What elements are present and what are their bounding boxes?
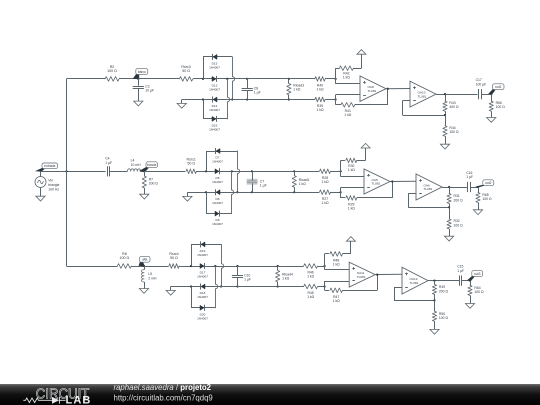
wire (gnd to C8 bottom) (182, 98, 249, 103)
svg-text:1 kΩ: 1 kΩ (307, 295, 315, 299)
wire (vertical bus) (66, 79, 68, 266)
svg-text:100 Ω: 100 Ω (449, 130, 459, 134)
wire (C7 to Rload1 top) (252, 170, 295, 172)
ground (middle bottom-rail) (183, 196, 192, 201)
svg-text:1 µF: 1 µF (466, 175, 473, 179)
wire (OA11 out to OA12) (375, 274, 402, 276)
ground (L5) (139, 289, 148, 294)
op-amp OA5 (middle first) (364, 169, 390, 194)
wire (bot - jog) (325, 281, 350, 290)
wire (alta to Rsrc4) (144, 266, 169, 268)
wire (C8 to Rload3 top) (247, 78, 290, 80)
svg-text:1N4007: 1N4007 (197, 253, 208, 257)
svg-text:100 Ω: 100 Ω (496, 105, 506, 109)
op-amp OA12 (bottom buffer) (402, 267, 428, 294)
wire (R30 to VCC) (357, 148, 366, 161)
svg-text:out2: out2 (485, 181, 492, 185)
wire (bot + jog) (325, 254, 350, 270)
node junction at bus/input (65, 170, 67, 172)
svg-text:alta: alta (142, 258, 147, 262)
svg-text:1 kΩ: 1 kΩ (348, 206, 356, 210)
svg-text:50 Ω: 50 Ω (187, 162, 195, 166)
svg-text:TL081: TL081 (424, 187, 433, 191)
wire (OA12 out to C15) (428, 280, 459, 282)
svg-text:banda: banda (147, 163, 156, 167)
capacitor C2 (133, 79, 154, 101)
svg-text:1 kΩ: 1 kΩ (343, 76, 351, 80)
flag out1 (488, 84, 504, 95)
resistor R29 (341, 196, 357, 211)
wire (D8 branch right, hops bottom rail) (232, 171, 234, 213)
svg-text:TL081: TL081 (410, 281, 419, 285)
svg-text:100 Ω: 100 Ω (120, 256, 130, 260)
inductor L4 (127, 159, 141, 172)
svg-text:100 µF: 100 µF (476, 82, 487, 86)
resistor R30 (341, 158, 357, 172)
diode D6 (212, 189, 223, 205)
resistor R49 (432, 281, 448, 302)
resistor Rload3 (287, 79, 304, 100)
svg-text:100 Ω: 100 Ω (439, 316, 449, 320)
svg-text:1 µF: 1 µF (457, 269, 464, 273)
svg-text:1 kΩ: 1 kΩ (307, 275, 315, 279)
wire (OA10 - feedback loop) (403, 101, 446, 116)
wire (R27 to - node) (331, 191, 342, 193)
wire (C7 to Rload1 bottom) (252, 191, 295, 193)
resistor R41 (336, 103, 355, 117)
svg-text:1 kΩ: 1 kΩ (348, 168, 356, 172)
ground (top bottom-rail) (177, 103, 186, 108)
svg-text:1N4007: 1N4007 (209, 88, 220, 92)
wire (D15 branch right, hops main rail) (231, 57, 235, 101)
resistor Rsrc3 (179, 65, 192, 81)
wire (C4 to L4) (110, 171, 128, 173)
svg-text:TL081: TL081 (418, 94, 427, 98)
ground (R44) (440, 144, 449, 149)
svg-text:1 kΩ: 1 kΩ (321, 180, 329, 184)
power VCC arrow (middle channel) (361, 143, 370, 148)
resistor R48 (325, 252, 343, 267)
svg-text:1 kΩ: 1 kΩ (293, 88, 301, 92)
wire (C16 to out2 node) (470, 186, 479, 188)
resistor R64 (468, 281, 484, 304)
wire (gnd to C7 bottom) (187, 191, 253, 196)
svg-text:1N4007: 1N4007 (212, 160, 223, 164)
wire (R48 to VCC) (343, 241, 351, 254)
wire (OA6 - feedback loop) (408, 194, 449, 208)
resistor R31 (447, 187, 463, 208)
voltage source Vin (35, 171, 60, 196)
wire (baixo to Rsrc3) (138, 78, 179, 80)
wire (OA5 out to OA6) (390, 180, 416, 182)
svg-text:raphael.saavedra / projeto2: raphael.saavedra / projeto2 (114, 383, 212, 392)
svg-text:1 kΩ: 1 kΩ (282, 277, 290, 281)
wire (R40 to + node) (325, 78, 337, 80)
ground (R66) (487, 118, 496, 123)
resistor R46 (304, 264, 318, 279)
wire (rail to R27) (294, 192, 319, 194)
capacitor C7 highlight (247, 179, 258, 185)
svg-text:1N4007: 1N4007 (209, 128, 220, 132)
svg-text:400 Ω: 400 Ω (449, 105, 459, 109)
svg-text:100 Ω: 100 Ω (482, 197, 492, 201)
wire (R29 to feedback) (357, 182, 393, 198)
diode D14 (209, 97, 220, 113)
capacitor C17 (476, 78, 487, 99)
capacitor C16 (466, 171, 473, 192)
resistor Rsrc1 (186, 157, 196, 173)
wire (rail to R39) (289, 99, 315, 101)
wire (R46 to + node) (318, 265, 326, 267)
svg-text:10 µF: 10 µF (145, 89, 154, 93)
svg-text:TL081: TL081 (368, 89, 377, 93)
diode D13 (209, 76, 220, 92)
wire (C10 to Rload4 top) (238, 265, 279, 267)
capacitor C10 (232, 266, 251, 287)
resistor R2 (105, 65, 119, 81)
ground (bottom bottom-rail) (166, 290, 175, 295)
svg-text:baixo: baixo (138, 70, 146, 74)
resistor R47 (325, 288, 343, 303)
svg-text:100 Ω: 100 Ω (107, 69, 117, 73)
svg-text:1N4007: 1N4007 (197, 295, 208, 299)
wire (Rload3 to R40) (289, 78, 315, 80)
resistor Rsrc4 (169, 252, 179, 268)
svg-text:entrada: entrada (44, 164, 55, 168)
wire (bus to R8) (67, 266, 118, 268)
wire (OA10 out to C17) (436, 93, 477, 95)
wire (R47 to feedback) (343, 275, 378, 291)
svg-text:100 Hz: 100 Hz (48, 187, 59, 191)
capacitor C15 (457, 265, 464, 286)
wire (C10 to Rload4 bottom) (238, 285, 279, 287)
diode D8 (212, 211, 223, 227)
diode D17 (197, 263, 208, 279)
resistor R66 (489, 94, 505, 117)
svg-text:1N4007: 1N4007 (212, 180, 223, 184)
wire (C15 to out3 node) (462, 280, 471, 282)
svg-text:50 Ω: 50 Ω (182, 69, 190, 73)
svg-text:1N4007: 1N4007 (197, 275, 208, 279)
wire (D20 branch left) (191, 287, 215, 308)
footer text (114, 383, 213, 403)
svg-text:100 Ω: 100 Ω (454, 223, 464, 227)
wire (D7 branch left) (206, 151, 237, 171)
wire (D20 branch right, hops bottom rail) (216, 266, 218, 308)
wire (R28 to + node) (331, 170, 342, 172)
flag banda (139, 162, 158, 172)
wire (D19 branch left) (191, 244, 221, 266)
op-amp OA11 (bottom first) (349, 262, 375, 287)
ground (R32) (445, 236, 454, 241)
svg-text:1 µF: 1 µF (244, 278, 251, 282)
ground (R65) (473, 210, 482, 215)
wire (gnd to C10 bottom) (171, 285, 239, 290)
svg-text:1N4007: 1N4007 (209, 66, 220, 70)
resistor R50 (432, 300, 448, 329)
svg-text:2 mH: 2 mH (148, 276, 157, 280)
resistor R65 (476, 187, 492, 210)
wire (Rload4 to R46) (278, 266, 304, 268)
diode D18 (197, 284, 208, 300)
wire (R42 left) (336, 68, 340, 70)
svg-text:1 kΩ: 1 kΩ (316, 108, 324, 112)
ground (R7) (140, 194, 149, 199)
wire (D16 branch left) (203, 100, 227, 119)
wire (Rsrc4 to C10) (179, 265, 238, 267)
svg-text:1 kΩ: 1 kΩ (333, 262, 341, 266)
resistor R44 (443, 115, 459, 144)
power VCC arrow (bottom channel) (346, 237, 355, 242)
svg-text:200 Ω: 200 Ω (149, 182, 159, 186)
power VCC arrow (top channel) (357, 50, 366, 55)
wire (banda to Rsrc1) (144, 171, 185, 173)
diode D16 (209, 116, 220, 132)
wire (D7 branch right, hops main rail) (236, 151, 239, 193)
wire (rail to R45) (278, 286, 304, 288)
ground (R50) (430, 329, 439, 334)
svg-text:1 kΩ: 1 kΩ (321, 201, 329, 205)
svg-text:50 Ω: 50 Ω (170, 256, 178, 260)
resistor R43 (443, 94, 459, 116)
footer bar (0, 384, 540, 405)
flag entrada (35, 163, 58, 172)
wire (mid - jog) (341, 187, 365, 198)
diode D20 (197, 305, 208, 321)
wire (OA6 out to C16) (442, 186, 468, 188)
svg-text:out1: out1 (495, 85, 502, 89)
wire (mid + jog) (341, 160, 365, 176)
resistor R7 (142, 171, 158, 194)
flag out2 (475, 180, 494, 188)
svg-text:1 µF: 1 µF (254, 91, 261, 95)
diode D5 (212, 168, 223, 184)
capacitor C7 (247, 171, 267, 192)
svg-text:1 kΩ: 1 kΩ (316, 88, 324, 92)
wire (C17 to out1 node) (482, 93, 493, 95)
wire (R8 to alta node) (131, 265, 145, 267)
wire (R41 to feedback) (355, 89, 388, 105)
wire (D8 branch left) (206, 192, 232, 213)
svg-text:200 Ω: 200 Ω (439, 289, 449, 293)
ground (R64) (465, 304, 474, 309)
op-amp OA6 (middle buffer) (416, 174, 442, 200)
wire (R2 to node baixo) (119, 78, 139, 80)
resistor Rload4 (276, 266, 293, 287)
svg-text:1 µF: 1 µF (105, 161, 112, 165)
wire (C8 to Rload3 bottom) (247, 98, 290, 100)
diode D15 (209, 54, 220, 70)
svg-text:1N4007: 1N4007 (212, 201, 223, 205)
resistor R45 (304, 284, 318, 299)
wire (OA8 out to OA10) (386, 88, 410, 90)
diode D7 (212, 148, 223, 164)
wire (- jog) (336, 95, 361, 105)
wire (Rsrc3 to C8) (193, 78, 248, 80)
CircuitLab logo (23, 386, 91, 405)
flag baixo (133, 69, 148, 80)
svg-text:TL081: TL081 (357, 275, 366, 279)
ground (below Vin) (36, 196, 45, 201)
wire (L4 to banda node) (141, 170, 146, 172)
resistor R8 (117, 252, 131, 268)
wire (bus to R2) (67, 78, 106, 80)
svg-text:TL081: TL081 (372, 182, 381, 186)
svg-text:1 kΩ: 1 kΩ (333, 299, 341, 303)
svg-text:200 Ω: 200 Ω (454, 198, 464, 202)
svg-text:1 kΩ: 1 kΩ (299, 182, 307, 186)
inductor L5 (141, 266, 157, 289)
ground (C2) (134, 101, 143, 106)
wire (+ jog) (336, 68, 361, 84)
wire (Vin to C4) (41, 171, 106, 173)
wire (OA12 - feedback loop) (394, 287, 435, 300)
svg-text:1N4007: 1N4007 (212, 222, 223, 226)
svg-text:10 mH: 10 mH (131, 163, 142, 167)
flag alta (139, 256, 151, 266)
resistor R28 (320, 169, 331, 184)
svg-text:100 Ω: 100 Ω (474, 290, 484, 294)
wire (R42 to VCC) (353, 54, 361, 68)
wire (D15 branch left) (203, 57, 232, 79)
wire (D16 branch right, hops bottom rail) (228, 79, 230, 119)
op-amp OA10 (top buffer) (410, 81, 436, 107)
svg-text:out3: out3 (474, 272, 481, 276)
op-amp OA8 (top first) (360, 76, 386, 101)
svg-text:1 kΩ: 1 kΩ (344, 113, 352, 117)
capacitor C4 (105, 157, 112, 177)
svg-text:LAB: LAB (66, 394, 92, 405)
wire (D19 branch right, hops main rail) (220, 244, 224, 287)
resistor R39 (315, 97, 325, 112)
capacitor C8 (242, 79, 261, 100)
svg-text:1 µF: 1 µF (260, 184, 267, 188)
svg-text:http://circuitlab.com/cn7qdq9: http://circuitlab.com/cn7qdq9 (114, 394, 213, 403)
svg-text:1N4007: 1N4007 (209, 108, 220, 112)
resistor R32 (447, 207, 463, 236)
wire (Rsrc1 to C7) (196, 170, 253, 172)
diode D19 (197, 241, 208, 257)
wire (R45 to - node) (318, 285, 326, 287)
resistor R42 (339, 66, 353, 80)
flag out3 (467, 271, 483, 281)
resistor R27 (320, 190, 331, 205)
resistor R40 (315, 77, 325, 92)
resistor Rload1 (292, 171, 309, 192)
wire (R39 to - node) (325, 98, 337, 100)
svg-text:Vin: Vin (48, 178, 53, 182)
svg-text:1N4007: 1N4007 (197, 316, 208, 320)
wire (Rload1 to R28) (294, 171, 319, 173)
svg-text:triangle: triangle (48, 183, 59, 187)
